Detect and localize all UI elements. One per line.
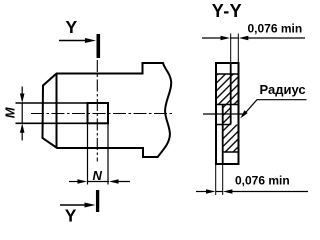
right edge extension above [237,34,239,63]
slot left wall (line B) [222,105,224,165]
svg-text:Радиус: Радиус [260,82,306,97]
section outer rectangle [216,63,239,164]
svg-text:M: M [3,106,18,118]
svg-text:0,076 min: 0,076 min [248,21,303,35]
step edge at y104.5 [216,104,238,106]
svg-text:N: N [93,168,103,183]
section centerline [203,113,244,115]
section marker top: cutting plane bar [97,34,101,58]
dimension N arrows [69,179,130,184]
section marker top: arrow [59,38,96,43]
part outline left view [43,63,172,157]
section marker bottom: arrow [60,203,96,208]
top band inner edge [216,73,238,75]
left edge extension below [215,165,217,196]
step edge at y124.5 [216,124,231,126]
hatch middle block [224,105,231,125]
hatch lower block [224,125,238,153]
slot right edge below box [107,123,109,184]
vertical centerline [96,60,98,162]
groove upper edge (M band top) [16,102,88,104]
bottom dimension 0,076 min arrows [196,189,308,194]
slot left wall extension below [222,165,224,196]
slot opening box [88,103,109,123]
leader line for Радиус [240,100,306,119]
top dimension 0,076 min arrows [202,36,305,41]
groove lower edge (M band bottom) [16,122,88,124]
slot right wall (line C) [230,63,232,125]
bottom band inner edge [223,151,239,153]
svg-text:Y-Y: Y-Y [212,1,242,21]
section marker bottom: cutting plane bar [96,190,99,212]
dimension M arrows [20,87,25,141]
svg-text:Y: Y [65,206,77,226]
slot right wall extension above [230,34,232,63]
slot left edge below box [87,123,89,184]
svg-text:0,076 min: 0,076 min [235,174,290,188]
flange face line [56,74,58,149]
horizontal centerline left view [31,113,174,115]
hatch upper block [217,75,238,105]
svg-text:Y: Y [66,17,78,37]
